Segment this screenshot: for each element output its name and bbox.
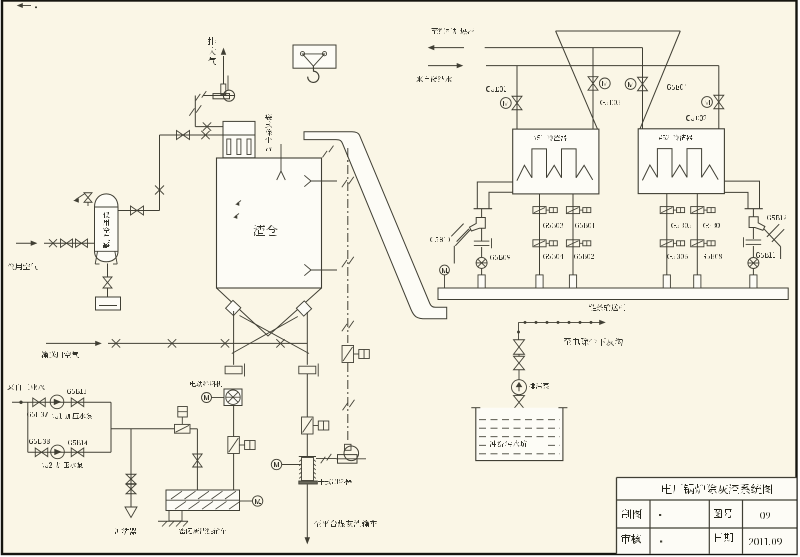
- pipe + foot right: [752, 269, 754, 275]
- conveying air arrow: [46, 342, 97, 344]
- label 冲洗器: [115, 528, 137, 535]
- slag drop line (dash-dot): [347, 148, 349, 343]
- cooler51 leg1 + valves G5B03/G5B04: [539, 194, 541, 275]
- air valve X 2: [168, 339, 176, 347]
- label 至汽机加热器: [431, 28, 474, 34]
- pipe boot to G5B09: [481, 228, 483, 241]
- drain pipe lower: [107, 288, 109, 297]
- level probe right lower: [311, 269, 337, 271]
- label G5B14: [68, 440, 88, 445]
- label G5D37: [27, 412, 48, 417]
- branch pipe G5E02: [718, 66, 720, 129]
- label 袋式除尘器(vertical): [265, 114, 272, 151]
- pipe riser-to-filter: [160, 134, 224, 136]
- branch pipe down: [27, 402, 29, 452]
- label G5B09: [490, 255, 510, 260]
- pump #52 加压水泵: [51, 445, 65, 459]
- branch pipe G5E01: [516, 66, 518, 130]
- label 仪用空气罐(vertical): [103, 212, 110, 248]
- drain valve: [103, 277, 112, 283]
- label 输送用空气: [41, 351, 79, 358]
- valve X on loop: [203, 122, 211, 130]
- rotary airlock left: [476, 257, 487, 268]
- service water lower pipe: [28, 451, 111, 453]
- mixer support: [169, 511, 182, 522]
- break marks on vent pipe: [321, 457, 326, 464]
- valve on air inlet 2: [76, 239, 82, 247]
- valve X on air inlet: [49, 239, 57, 247]
- vent arrow: [221, 49, 226, 55]
- knife gate valve on right leg: [302, 417, 314, 434]
- pipe blower loop vertical: [194, 96, 196, 127]
- junction dot: [20, 401, 23, 404]
- cooler52 right duct: [724, 181, 759, 209]
- hopper gate right (slide): [296, 301, 311, 316]
- mixer 搅拌机 body: [166, 490, 240, 511]
- top-left tiny arrow: [21, 5, 31, 7]
- vessel legs: [95, 252, 97, 265]
- valve G5E04: [625, 79, 636, 90]
- label 排大气(vertical): [208, 37, 216, 65]
- mixer feed water pipe: [196, 429, 198, 490]
- pit water (dashes): [479, 419, 560, 421]
- dry unloader 干式卸料器: [302, 458, 314, 481]
- vessel 仪用空气罐 shell: [95, 194, 119, 262]
- pipe + foot left: [481, 268, 483, 275]
- label 来自凝结水: [416, 76, 452, 82]
- vacuum pump: [344, 446, 359, 461]
- conveying air pipe: [108, 342, 307, 344]
- valve G5E03: [588, 77, 598, 84]
- label 链条输送机: [589, 304, 625, 311]
- knife gate valve on drop line: [342, 346, 354, 363]
- slag drop line lower: [347, 363, 349, 443]
- discharge arrow: [305, 538, 310, 544]
- branch pipe G5E04: [642, 48, 644, 129]
- pipe loop to filter: [195, 126, 223, 128]
- hopper left leg pipe: [233, 311, 235, 365]
- mixer motor M: [240, 500, 253, 502]
- label G5B12: [767, 215, 787, 220]
- bin hopper V bottom: [217, 288, 322, 336]
- right leg outlet valve: [299, 366, 316, 374]
- pipe riser x159: [159, 135, 161, 211]
- pipe tank outlet right: [118, 210, 160, 212]
- slag bin 渣仓: [217, 158, 322, 288]
- label G5D38: [29, 439, 50, 444]
- title block frame: [617, 477, 797, 479]
- cooler52 leg2 + valves G5B07/G5B08: [696, 194, 698, 275]
- label 密闭灰渣混输车: [179, 528, 226, 534]
- bag filter top box: [223, 121, 255, 135]
- mixer screw hatching: [171, 491, 182, 499]
- pipe to unloader: [306, 434, 308, 457]
- valve G5B09: [474, 240, 490, 242]
- label 至电除尘下灰沟: [563, 338, 623, 346]
- cooler water out pipe (upper): [485, 47, 643, 49]
- ESP drop pipe: [518, 322, 520, 340]
- rotary feeder 电动给料机: [224, 389, 242, 406]
- label G5B10: [430, 237, 450, 242]
- text 09: [760, 512, 770, 519]
- knife gate valve on left leg: [228, 437, 240, 454]
- unloader motor M: [271, 459, 281, 469]
- signature dots: [659, 514, 661, 516]
- flush branch pipe: [130, 429, 132, 507]
- valve G5B11: [746, 239, 762, 241]
- left leg outlet valve: [225, 366, 242, 374]
- sewage valve 3: [514, 396, 525, 403]
- instrument-air inlet arrow: [16, 242, 33, 244]
- valve G5B12 (angled): [764, 229, 781, 247]
- pipe feeder to gate valve: [233, 406, 235, 437]
- chute head cap: [304, 132, 447, 319]
- label G5B11: [756, 252, 775, 258]
- hopper right leg pipe: [306, 312, 308, 365]
- pump #51 加压水泵: [50, 395, 64, 409]
- pipe to pump: [518, 370, 520, 380]
- text 2011.09: [749, 538, 782, 545]
- tank drain pipe: [107, 264, 109, 277]
- valve on filter feed: [177, 131, 184, 140]
- label 冲洗污水坑: [487, 438, 546, 448]
- duct stub right: [752, 209, 754, 217]
- air valve X 1: [112, 339, 120, 347]
- break marks on blower loop: [189, 108, 194, 115]
- small marks in bin: [237, 201, 241, 204]
- valve G5E02: [702, 97, 713, 108]
- rotary airlock right: [748, 258, 759, 269]
- valve G5E01: [500, 98, 511, 109]
- label #52 加压水泵: [41, 462, 83, 468]
- level probe right upper: [311, 180, 337, 182]
- break marks 3: [342, 324, 347, 331]
- label 图号: [714, 509, 733, 518]
- discharge pipe down: [306, 485, 308, 539]
- blower fan: [223, 90, 234, 101]
- arrow to turbine heater: [432, 47, 464, 49]
- cooler #51 冷渣器: [513, 129, 599, 194]
- bag filter slot 2: [237, 139, 241, 155]
- elbow boot right: [749, 217, 765, 231]
- hoist box: [293, 45, 336, 68]
- sewage valve 1: [514, 340, 525, 347]
- label #51 加压水泵: [51, 413, 92, 419]
- cooler52 leg1 + valves G5B05/G5B06: [666, 194, 668, 275]
- label 日期: [715, 533, 733, 542]
- hoist triangle: [303, 54, 325, 66]
- valve X on filter feed: [201, 131, 209, 139]
- level probe top: [280, 144, 282, 171]
- valve X on riser: [155, 186, 164, 195]
- flush drain funnel: [125, 507, 137, 518]
- conveyor motor M: [440, 265, 450, 275]
- label 制图: [622, 509, 642, 519]
- duct stub: [481, 209, 483, 218]
- feeder motor M: [202, 393, 212, 403]
- title block panel: [617, 478, 797, 554]
- pit 冲洗污水坑 walls: [476, 408, 563, 461]
- pipe to rotary: [481, 247, 483, 258]
- chain conveyor bar: [438, 288, 788, 300]
- hopper cross chute B: [232, 317, 298, 354]
- label 电动给料机: [190, 381, 222, 387]
- mixer ground: [158, 520, 188, 522]
- hoist hook: [308, 66, 319, 82]
- label G5E03: [600, 100, 620, 105]
- service water main pipe: [12, 401, 111, 403]
- label G5E04: [667, 84, 687, 90]
- suction pipe: [518, 409, 520, 416]
- water pipe to mixer: [111, 428, 175, 430]
- pipe seg: [518, 355, 520, 357]
- pipe blower suction: [203, 95, 235, 97]
- valve G5B13: [71, 398, 77, 407]
- boiler funnel: [556, 30, 681, 32]
- valve on tank outlet: [131, 206, 138, 215]
- pipe to mixer: [233, 454, 235, 491]
- label G5E02: [686, 115, 707, 121]
- label G5B13: [67, 389, 86, 394]
- flush valve 2: [126, 484, 136, 489]
- pump header pipe: [110, 402, 112, 452]
- bag filter slot 3: [247, 139, 251, 155]
- label 渣仓: [253, 225, 278, 236]
- hopper cross chute A: [240, 316, 310, 354]
- sewage valve 2: [514, 356, 525, 363]
- valve on mixer feed: [193, 454, 203, 461]
- unloader vent pipe: [316, 458, 337, 460]
- valve G5D38: [35, 448, 41, 457]
- air valve X 4: [276, 339, 284, 347]
- flush valve 1: [126, 474, 136, 479]
- break marks on chute: [323, 151, 328, 158]
- vent stack pipe: [223, 56, 225, 84]
- valve G5B10 (angled): [455, 230, 470, 246]
- elbow boot left: [470, 218, 486, 232]
- label 排污泵: [529, 383, 549, 389]
- break marks 4: [343, 403, 348, 410]
- arrow from condensate: [428, 65, 459, 67]
- bag filter slot 1: [227, 139, 231, 155]
- valve on air inlet 1: [61, 239, 67, 247]
- valve G5D37: [33, 398, 39, 407]
- valve G5B14: [71, 448, 77, 457]
- pipe pumps to mixer junction: [190, 428, 197, 430]
- cooler51 leg2 + valves G5B01/G5B02: [572, 194, 574, 275]
- slag drop line top segment: [347, 148, 349, 163]
- label 审核: [621, 534, 641, 544]
- cooler51 left duct: [477, 182, 512, 209]
- branch pipe G5E03: [592, 48, 594, 130]
- relief valve on tank top: [87, 203, 89, 207]
- pipe to rotary right: [752, 228, 754, 240]
- label 至平台煤灰渣输车: [314, 520, 377, 527]
- break marks 1: [342, 180, 347, 187]
- ESP ditch dotted pipe: [519, 321, 601, 323]
- cooler water in pipe (lower): [486, 65, 719, 67]
- drain funnel box: [96, 297, 121, 310]
- break marks on blower suction: [196, 94, 201, 101]
- title text 电厂锅炉除灰渣系统图: [662, 484, 772, 494]
- sewage pump 排污泵: [512, 380, 527, 395]
- actuated valve on water pipe: [175, 424, 191, 433]
- bag filter body: [223, 135, 255, 158]
- label G5E01: [486, 86, 506, 92]
- pipe to air tank: [44, 242, 95, 244]
- hopper gate left (slide): [226, 300, 241, 315]
- break marks 2: [342, 260, 347, 267]
- label 干式卸料器: [318, 479, 352, 485]
- cooler #52 冷渣器: [638, 129, 724, 194]
- label 仪用空气: [8, 263, 38, 270]
- pipe right leg lower: [306, 374, 308, 417]
- air valve X 3: [221, 339, 229, 347]
- label 来自工业水: [7, 384, 45, 391]
